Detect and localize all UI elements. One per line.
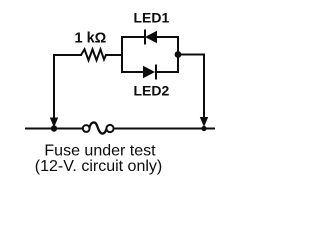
wire top horizontal to resistor [53,54,82,56]
svg-text:LED2: LED2 [134,83,170,99]
wire resistor to LED network [105,54,123,56]
wire bottom branch left segment [121,71,144,73]
wire right vertical (probe lead down) [203,54,205,121]
wire top branch right segment [156,36,179,38]
resistor 1 kOhm [81,49,106,60]
probe arrowhead left [50,118,58,128]
svg-text:1 kΩ: 1 kΩ [75,31,107,47]
LED LED2 cathode bar [155,65,157,80]
svg-text:LED1: LED1 [134,10,170,26]
probe arrowhead right [200,117,208,127]
fuse element squiggle [89,122,106,133]
wire bottom rail right of fuse [113,128,215,130]
wire top branch left segment [121,36,145,38]
wire bottom branch right segment [155,71,179,73]
LED LED2 triangle (points right) [143,66,155,78]
wire from node to right probe lead [178,54,205,56]
fuse right terminal circle [106,125,113,132]
junction node dot right probe on rail [201,126,206,131]
junction node dot at LED network output [175,51,182,58]
wire parallel-network left vertical [121,36,123,73]
wire bottom rail left of fuse [25,128,83,130]
junction node dot left probe on rail [51,125,57,131]
svg-text:Fuse under test: Fuse under test [44,143,156,160]
wire left vertical (probe lead down from resistor wire) [53,55,55,121]
fuse left terminal circle [83,125,90,132]
svg-text:(12-V. circuit only): (12-V. circuit only) [35,158,162,175]
wire parallel-network right vertical [177,36,179,73]
LED LED1 triangle (points left) [145,31,157,43]
LED LED1 cathode bar [144,30,146,45]
